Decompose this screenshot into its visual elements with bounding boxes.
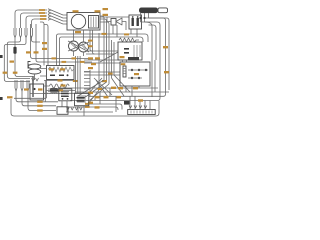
label trunk d <box>88 67 93 69</box>
wire regbox drops <box>131 29 137 37</box>
wire top link <box>100 16 129 18</box>
connector pairs <box>15 80 29 99</box>
junction dot tr2 <box>143 17 145 19</box>
coil box <box>118 42 142 60</box>
page tick lower <box>0 97 3 100</box>
horizontal main bus 2 <box>60 37 144 66</box>
label hline d <box>80 61 85 63</box>
label trunk e <box>102 80 107 82</box>
contact dot 4 <box>131 77 133 79</box>
wire bottom row <box>44 92 92 94</box>
label busc d <box>95 106 100 108</box>
right inner verticals <box>152 60 155 97</box>
switch hatched <box>128 57 139 60</box>
label CV <box>13 72 18 74</box>
label bus1 <box>37 101 43 103</box>
wire blob links <box>30 86 50 94</box>
label bus at coil <box>102 33 107 35</box>
knot hatch <box>71 43 88 50</box>
label bus3 <box>37 109 43 111</box>
label loops c <box>58 89 63 91</box>
label trunk b <box>95 57 100 59</box>
label heater b <box>60 68 65 70</box>
label coil <box>120 56 125 58</box>
label knot col b <box>42 48 47 50</box>
label reg box <box>134 73 139 75</box>
label heater a <box>49 68 54 70</box>
relay box bottom-center <box>75 93 89 105</box>
label drop a <box>88 40 93 42</box>
label tr stack b <box>103 8 109 10</box>
label feed2 <box>39 12 45 14</box>
small dark box bottom-right-center <box>124 101 130 105</box>
label busc a <box>88 92 93 94</box>
label cluster right <box>95 10 101 12</box>
wire diag at coil <box>100 52 118 62</box>
label bus at coil b <box>124 33 129 35</box>
relay bars <box>77 96 86 102</box>
fuse block box bottom-center <box>59 89 72 101</box>
fan wires into cluster <box>51 10 67 24</box>
chevron row bottom-center <box>67 107 83 110</box>
label connector row <box>24 88 29 90</box>
horizontal main bus 1 <box>57 34 149 66</box>
dashed pin row <box>47 93 65 95</box>
nested corner wires to bottom bus <box>11 95 159 116</box>
coil bar inside <box>123 66 126 77</box>
label busr c <box>133 87 138 89</box>
label regbig tl <box>121 63 126 65</box>
label feed1 <box>39 9 45 11</box>
reg bar 2 <box>137 18 139 26</box>
contact dot 2 <box>138 69 140 71</box>
wires cluster bottom-right drops <box>90 30 95 54</box>
contact dot 3 <box>145 69 147 71</box>
label feed4 <box>40 18 46 20</box>
gauge register <box>89 16 99 29</box>
label right col upper <box>163 46 168 48</box>
terminal strip <box>128 110 156 115</box>
resistor zigzag <box>119 38 139 42</box>
label pair mid-left b <box>34 51 39 53</box>
wire regbig top stubs <box>123 60 127 62</box>
heater zigzag <box>48 67 74 72</box>
pin strip center <box>84 70 90 92</box>
label right col lower <box>164 71 169 73</box>
box dot <box>33 88 35 90</box>
label hline b <box>72 57 77 59</box>
label busc e <box>104 96 109 98</box>
horn coil <box>28 64 41 81</box>
page tick upper <box>0 55 3 58</box>
label busr b <box>118 87 123 89</box>
label row upper b <box>73 80 78 82</box>
wire loops row <box>46 90 75 92</box>
label busc f <box>117 96 122 98</box>
double vertical <box>33 76 34 97</box>
label trunk a <box>88 57 93 59</box>
wire horn drops <box>113 25 117 37</box>
junction box left <box>30 84 44 100</box>
label hline c <box>62 61 67 63</box>
contact dot 5 <box>138 77 140 79</box>
connector chevrons on feeds <box>48 9 51 20</box>
label cluster left <box>73 10 79 12</box>
label nested left <box>7 96 13 98</box>
wire pair center-low <box>45 80 46 102</box>
coil box inner dashes <box>124 48 129 50</box>
left bundle inline connectors <box>14 28 33 38</box>
wire feed 2 <box>21 13 48 28</box>
knot circle 1 <box>69 41 79 51</box>
small box bottom-left-center <box>57 107 68 115</box>
fuse holder outline <box>158 8 168 13</box>
bus verticals <box>90 88 116 112</box>
solenoid dark blob <box>48 88 59 93</box>
top right drop wires <box>141 13 170 101</box>
regulator box small <box>129 15 142 29</box>
label busr a <box>111 87 116 89</box>
label busL2 <box>85 106 90 108</box>
fuse cylinder dark <box>139 8 158 14</box>
knot circle 2 <box>79 42 89 52</box>
horn symbol <box>107 17 122 25</box>
label knot col a <box>42 42 47 44</box>
cluster box <box>67 13 100 31</box>
switch blob left <box>13 47 16 54</box>
label busc b <box>95 96 100 98</box>
label trunk f <box>108 73 113 75</box>
wire row upper <box>44 80 75 82</box>
label drop b <box>88 45 93 47</box>
wires exiting cluster right <box>100 16 109 36</box>
center-left verticals from bundle <box>31 22 93 66</box>
knot cross wires <box>68 30 89 56</box>
label in box <box>38 88 43 90</box>
wire feed 3 <box>26 16 47 28</box>
label tr stack <box>103 14 109 16</box>
regulator big box <box>120 62 150 86</box>
wiper loops <box>50 84 70 88</box>
trunk-left verticals <box>76 56 81 93</box>
label busL1 <box>85 103 90 105</box>
left verticals continue <box>4 38 40 82</box>
label fan <box>98 88 103 90</box>
terminal pins <box>129 96 150 109</box>
coil bars <box>134 45 140 57</box>
diagonal fan wires <box>78 75 130 104</box>
fuse block bars <box>61 92 69 97</box>
wire feed 1 <box>15 10 47 28</box>
label on bus <box>75 31 81 33</box>
speedometer circle <box>71 14 85 28</box>
label B1 <box>10 61 15 63</box>
label trunk c <box>91 63 96 65</box>
wires in reg box <box>128 70 148 78</box>
reg bar 1 <box>132 18 134 26</box>
junction dot tr1 <box>139 17 141 19</box>
label bus2 <box>37 105 43 107</box>
trunk cross horizontals <box>84 51 120 75</box>
label LP <box>3 72 8 74</box>
horn chevrons <box>32 78 39 81</box>
label pair mid-left a <box>26 51 31 53</box>
register bars <box>91 17 96 28</box>
label feed3 <box>40 15 46 17</box>
bracket component mid-left <box>28 62 31 69</box>
wire feed 4 <box>32 19 48 28</box>
wire horn link <box>122 22 126 31</box>
heater box <box>47 66 75 80</box>
label loops b <box>61 84 66 86</box>
label busc c <box>88 102 93 104</box>
wire reg box stubs <box>126 86 139 96</box>
wire horn drop <box>34 74 36 80</box>
contact dots <box>131 69 133 71</box>
label hline a <box>52 57 57 59</box>
label loops a <box>58 79 63 81</box>
label terminal <box>138 99 143 101</box>
